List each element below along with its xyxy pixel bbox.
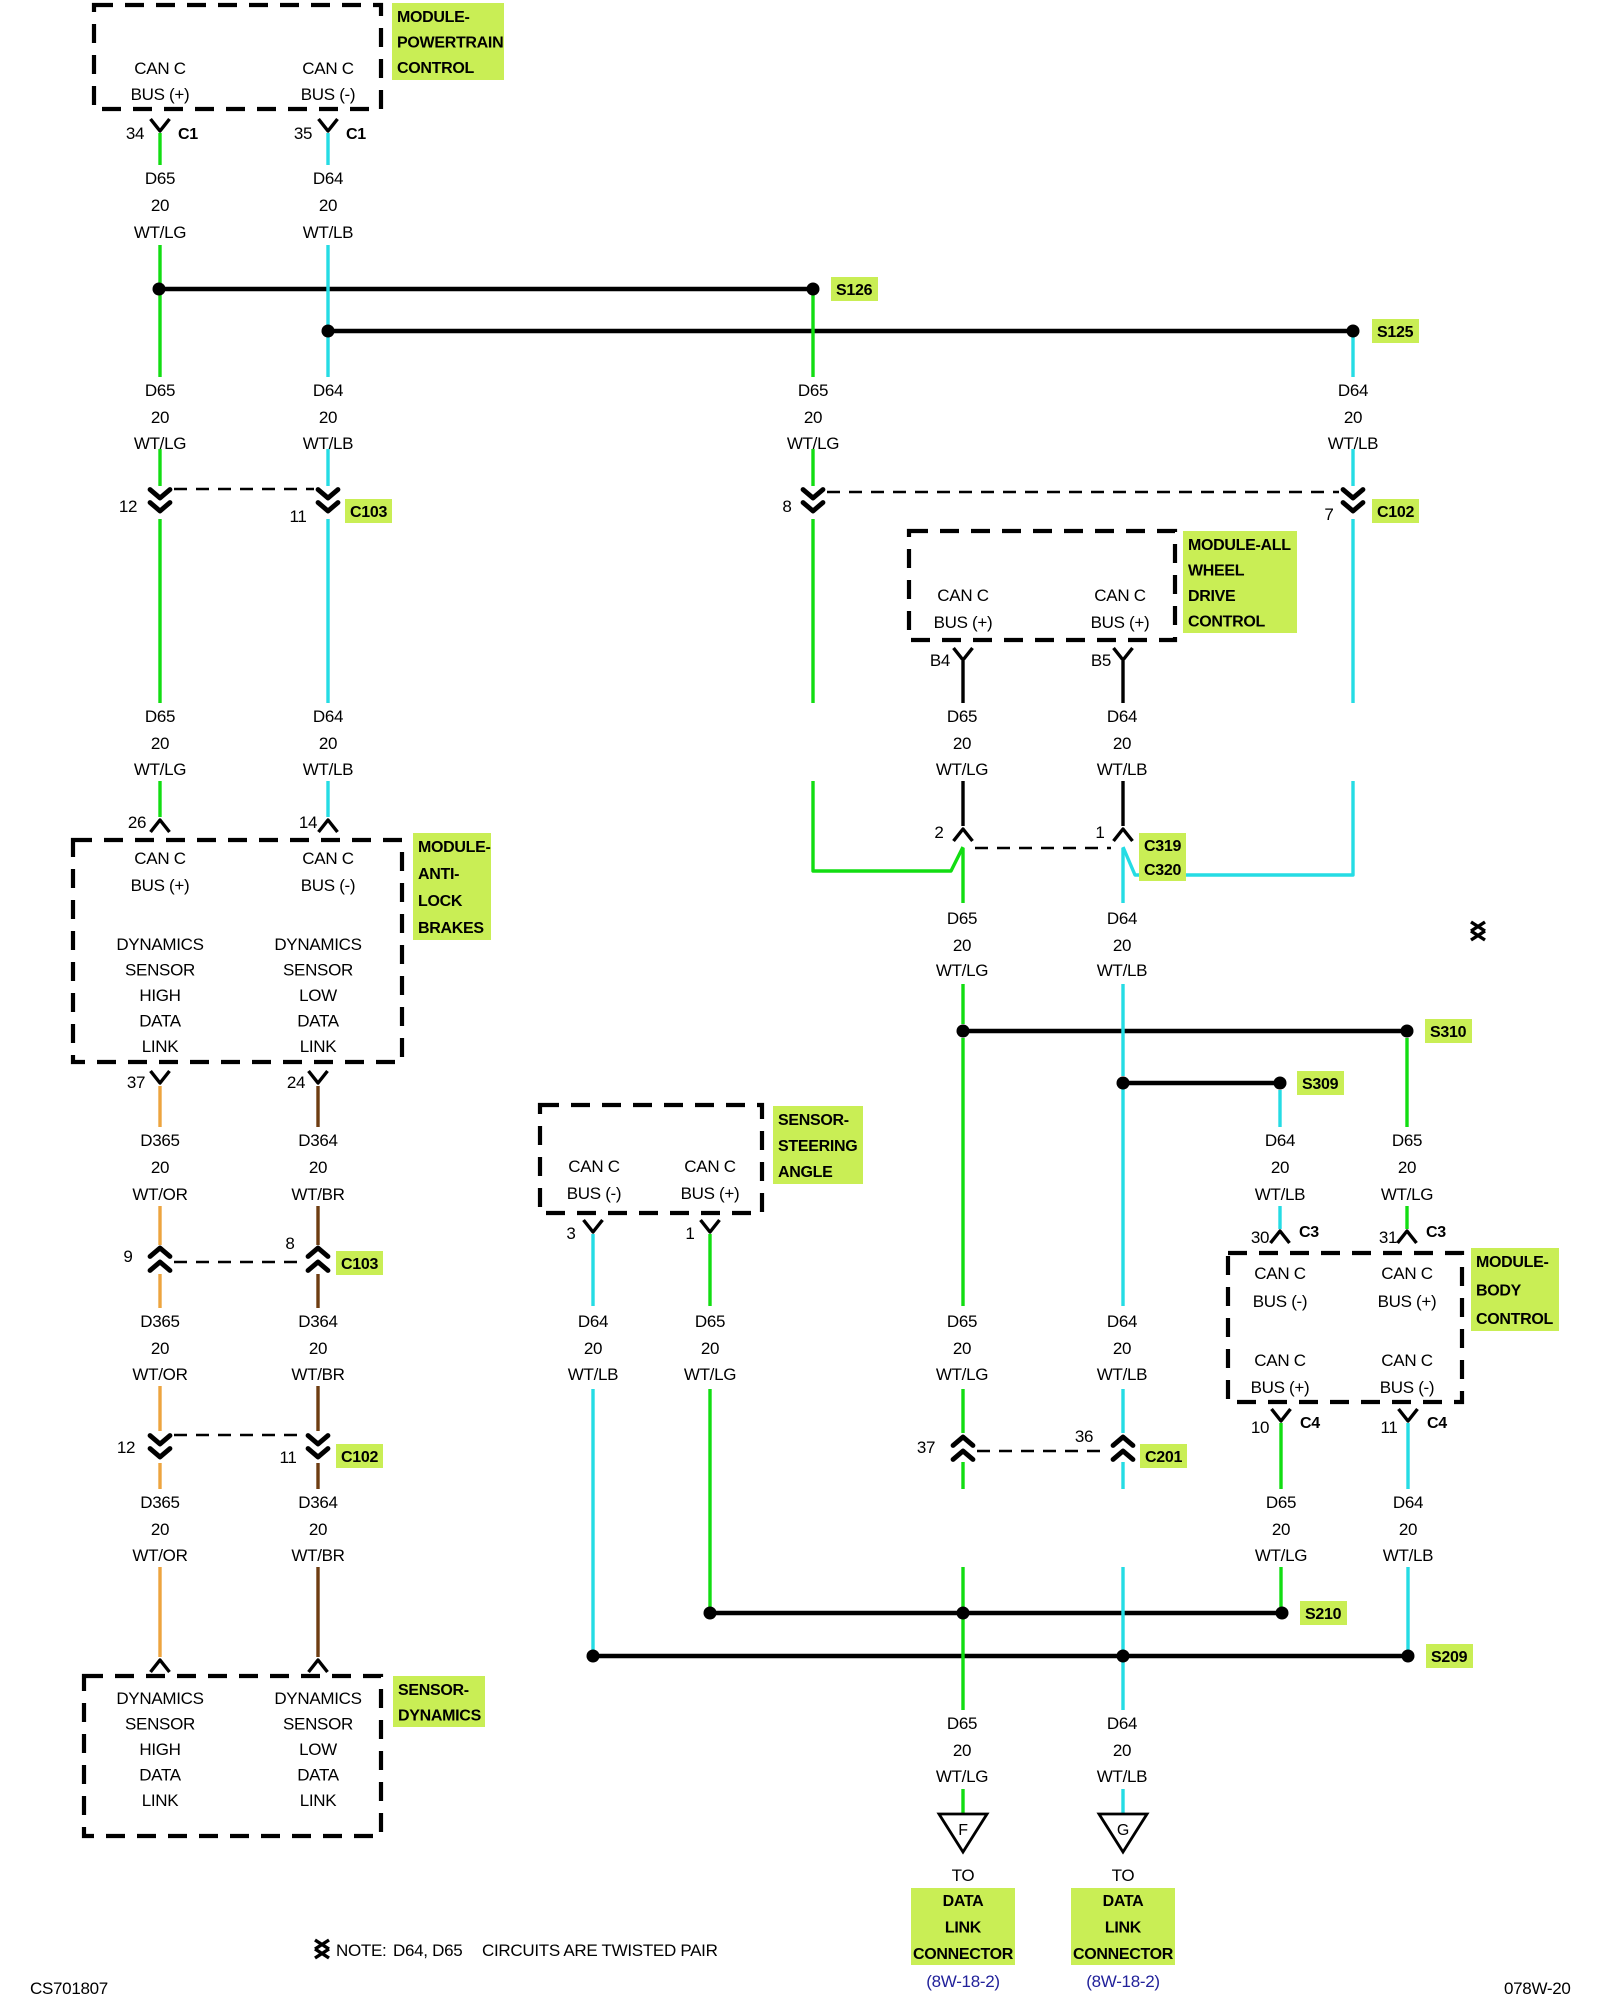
svg-text:C102: C102	[1377, 504, 1414, 521]
svg-text:BUS (+): BUS (+)	[1091, 613, 1150, 632]
svg-text:SENSOR: SENSOR	[283, 1715, 353, 1734]
svg-text:D64: D64	[1107, 707, 1137, 726]
svg-text:DATA: DATA	[943, 1893, 985, 1910]
svg-text:20: 20	[319, 408, 337, 427]
svg-text:20: 20	[953, 936, 971, 955]
svg-text:WT/LG: WT/LG	[134, 434, 186, 453]
svg-text:DATA: DATA	[297, 1012, 340, 1031]
svg-text:31: 31	[1379, 1228, 1397, 1247]
svg-text:D65: D65	[145, 381, 175, 400]
svg-text:LINK: LINK	[945, 1920, 982, 1937]
svg-text:D65: D65	[145, 707, 175, 726]
svg-text:24: 24	[287, 1073, 305, 1092]
svg-text:S126: S126	[836, 282, 873, 299]
svg-text:WT/OR: WT/OR	[132, 1365, 187, 1384]
svg-text:D65: D65	[1392, 1131, 1422, 1150]
svg-text:CONTROL: CONTROL	[1188, 614, 1266, 631]
svg-text:CAN C: CAN C	[302, 849, 353, 868]
svg-text:S309: S309	[1302, 1076, 1339, 1093]
svg-text:BUS (-): BUS (-)	[301, 85, 356, 104]
svg-text:WT/LG: WT/LG	[1255, 1546, 1307, 1565]
svg-text:35: 35	[294, 124, 312, 143]
svg-text:BUS (+): BUS (+)	[934, 613, 993, 632]
svg-text:11: 11	[1380, 1418, 1397, 1437]
svg-text:WT/BR: WT/BR	[291, 1365, 344, 1384]
svg-text:C3: C3	[1426, 1224, 1446, 1241]
svg-text:D64, D65: D64, D65	[393, 1941, 462, 1960]
svg-text:D65: D65	[947, 707, 977, 726]
svg-text:CAN C: CAN C	[1254, 1264, 1305, 1283]
svg-text:8: 8	[782, 497, 791, 516]
svg-text:BUS (+): BUS (+)	[1251, 1378, 1310, 1397]
svg-text:LINK: LINK	[300, 1791, 338, 1810]
svg-text:DATA: DATA	[297, 1766, 340, 1785]
svg-text:WT/LG: WT/LG	[936, 760, 988, 779]
svg-text:20: 20	[1113, 734, 1131, 753]
svg-text:NOTE:: NOTE:	[336, 1941, 386, 1960]
svg-text:S210: S210	[1305, 1606, 1342, 1623]
svg-text:BUS (+): BUS (+)	[131, 85, 190, 104]
svg-text:10: 10	[1251, 1418, 1269, 1437]
svg-text:C103: C103	[341, 1256, 378, 1273]
svg-text:DATA: DATA	[1103, 1893, 1145, 1910]
svg-text:C102: C102	[341, 1449, 378, 1466]
svg-text:C1: C1	[178, 126, 198, 143]
svg-text:D64: D64	[1338, 381, 1368, 400]
svg-text:LINK: LINK	[142, 1791, 180, 1810]
svg-text:S209: S209	[1431, 1649, 1468, 1666]
svg-text:CAN C: CAN C	[134, 59, 185, 78]
svg-text:C1: C1	[346, 126, 366, 143]
svg-text:BUS (-): BUS (-)	[301, 876, 356, 895]
svg-text:WT/OR: WT/OR	[132, 1185, 187, 1204]
svg-text:9: 9	[123, 1247, 132, 1266]
svg-text:LINK: LINK	[142, 1037, 180, 1056]
svg-text:CS701807: CS701807	[30, 1979, 108, 1998]
svg-text:CONTROL: CONTROL	[1476, 1311, 1554, 1328]
svg-text:20: 20	[1272, 1520, 1290, 1539]
svg-text:20: 20	[151, 1339, 169, 1358]
svg-text:WT/LG: WT/LG	[684, 1365, 736, 1384]
svg-text:20: 20	[1399, 1520, 1417, 1539]
svg-text:B4: B4	[930, 651, 950, 670]
svg-text:D64: D64	[313, 707, 343, 726]
svg-text:20: 20	[1398, 1158, 1416, 1177]
svg-text:11: 11	[289, 507, 306, 526]
svg-text:BUS (-): BUS (-)	[567, 1184, 622, 1203]
svg-text:D65: D65	[947, 909, 977, 928]
svg-text:20: 20	[953, 734, 971, 753]
svg-text:BUS (+): BUS (+)	[1378, 1292, 1437, 1311]
svg-text:37: 37	[917, 1438, 935, 1457]
svg-text:20: 20	[151, 408, 169, 427]
svg-text:078W-20: 078W-20	[1504, 1979, 1571, 1998]
svg-text:WT/LB: WT/LB	[1097, 760, 1147, 779]
svg-text:HIGH: HIGH	[139, 986, 180, 1005]
svg-text:CAN C: CAN C	[1254, 1351, 1305, 1370]
svg-text:DYNAMICS: DYNAMICS	[116, 935, 203, 954]
svg-text:MODULE-ALL: MODULE-ALL	[1188, 537, 1291, 554]
svg-text:TO: TO	[1112, 1866, 1135, 1885]
svg-text:WT/LG: WT/LG	[134, 223, 186, 242]
svg-text:20: 20	[1113, 1741, 1131, 1760]
svg-text:ANGLE: ANGLE	[778, 1164, 833, 1181]
svg-text:20: 20	[953, 1339, 971, 1358]
svg-text:C320: C320	[1144, 862, 1181, 879]
svg-text:20: 20	[309, 1339, 327, 1358]
svg-text:SENSOR: SENSOR	[283, 961, 353, 980]
svg-text:CAN C: CAN C	[302, 59, 353, 78]
svg-text:MODULE-: MODULE-	[397, 9, 470, 26]
svg-text:D64: D64	[313, 169, 343, 188]
svg-text:D64: D64	[578, 1312, 608, 1331]
svg-text:CONNECTOR: CONNECTOR	[913, 1946, 1014, 1963]
svg-text:LINK: LINK	[1105, 1920, 1142, 1937]
svg-text:WT/OR: WT/OR	[132, 1546, 187, 1565]
svg-text:C4: C4	[1427, 1415, 1447, 1432]
svg-text:20: 20	[151, 1158, 169, 1177]
svg-text:WT/LG: WT/LG	[1381, 1185, 1433, 1204]
svg-text:LINK: LINK	[300, 1037, 338, 1056]
svg-text:20: 20	[701, 1339, 719, 1358]
svg-text:S125: S125	[1377, 324, 1414, 341]
svg-text:C103: C103	[350, 504, 387, 521]
svg-text:WT/LB: WT/LB	[1097, 961, 1147, 980]
svg-text:BUS (+): BUS (+)	[681, 1184, 740, 1203]
svg-text:20: 20	[151, 196, 169, 215]
svg-text:20: 20	[953, 1741, 971, 1760]
svg-text:7: 7	[1324, 505, 1333, 524]
svg-text:14: 14	[299, 813, 317, 832]
svg-text:D365: D365	[140, 1312, 179, 1331]
svg-text:TO: TO	[952, 1866, 975, 1885]
svg-text:D64: D64	[1107, 1714, 1137, 1733]
svg-text:SENSOR: SENSOR	[125, 961, 195, 980]
svg-text:BRAKES: BRAKES	[418, 920, 484, 937]
svg-text:C319: C319	[1144, 838, 1181, 855]
svg-text:D364: D364	[298, 1131, 337, 1150]
svg-text:C201: C201	[1145, 1449, 1182, 1466]
svg-text:LOW: LOW	[299, 1740, 337, 1759]
svg-text:WT/LG: WT/LG	[936, 1365, 988, 1384]
svg-text:CAN C: CAN C	[568, 1157, 619, 1176]
svg-text:1: 1	[685, 1224, 694, 1243]
svg-text:D64: D64	[1107, 909, 1137, 928]
svg-text:20: 20	[319, 196, 337, 215]
svg-text:D64: D64	[1265, 1131, 1295, 1150]
svg-text:12: 12	[119, 497, 137, 516]
svg-text:D65: D65	[947, 1714, 977, 1733]
svg-text:1: 1	[1095, 823, 1104, 842]
svg-text:36: 36	[1075, 1427, 1093, 1446]
svg-text:D64: D64	[1107, 1312, 1137, 1331]
svg-text:20: 20	[1113, 1339, 1131, 1358]
svg-text:34: 34	[126, 124, 144, 143]
svg-text:20: 20	[1344, 408, 1362, 427]
svg-text:HIGH: HIGH	[139, 1740, 180, 1759]
svg-text:D65: D65	[695, 1312, 725, 1331]
svg-text:BUS (-): BUS (-)	[1380, 1378, 1435, 1397]
svg-text:20: 20	[309, 1158, 327, 1177]
svg-text:D365: D365	[140, 1131, 179, 1150]
svg-text:B5: B5	[1091, 651, 1111, 670]
svg-text:SENSOR-: SENSOR-	[778, 1112, 849, 1129]
svg-text:G: G	[1117, 1822, 1129, 1839]
svg-text:8: 8	[285, 1234, 294, 1253]
svg-text:CAN C: CAN C	[134, 849, 185, 868]
svg-text:D65: D65	[1266, 1493, 1296, 1512]
svg-text:WT/LG: WT/LG	[936, 961, 988, 980]
svg-text:LOCK: LOCK	[418, 893, 463, 910]
svg-text:3: 3	[566, 1224, 575, 1243]
svg-text:20: 20	[319, 734, 337, 753]
svg-text:D65: D65	[145, 169, 175, 188]
svg-text:DATA: DATA	[139, 1766, 182, 1785]
svg-text:20: 20	[1113, 936, 1131, 955]
svg-text:C3: C3	[1299, 1224, 1319, 1241]
svg-text:WT/LG: WT/LG	[936, 1767, 988, 1786]
svg-text:26: 26	[128, 813, 146, 832]
svg-text:DYNAMICS: DYNAMICS	[274, 935, 361, 954]
svg-text:D365: D365	[140, 1493, 179, 1512]
svg-text:WT/LB: WT/LB	[303, 434, 353, 453]
svg-text:WT/BR: WT/BR	[291, 1546, 344, 1565]
svg-text:DYNAMICS: DYNAMICS	[116, 1689, 203, 1708]
svg-text:2: 2	[934, 823, 943, 842]
svg-text:SENSOR: SENSOR	[125, 1715, 195, 1734]
svg-text:WT/LG: WT/LG	[787, 434, 839, 453]
svg-text:WT/LB: WT/LB	[303, 760, 353, 779]
svg-text:CAN C: CAN C	[1381, 1351, 1432, 1370]
svg-text:STEERING: STEERING	[778, 1138, 857, 1155]
svg-text:SENSOR-: SENSOR-	[398, 1682, 469, 1699]
svg-text:D64: D64	[313, 381, 343, 400]
svg-text:20: 20	[1271, 1158, 1289, 1177]
svg-text:S310: S310	[1430, 1024, 1467, 1041]
svg-text:(8W-18-2): (8W-18-2)	[926, 1972, 1000, 1991]
svg-text:WT/LB: WT/LB	[1328, 434, 1378, 453]
svg-text:30: 30	[1251, 1228, 1269, 1247]
svg-text:CAN C: CAN C	[684, 1157, 735, 1176]
svg-text:POWERTRAIN: POWERTRAIN	[397, 35, 503, 52]
svg-text:C4: C4	[1300, 1415, 1320, 1432]
svg-text:DYNAMICS: DYNAMICS	[398, 1708, 482, 1725]
svg-text:20: 20	[584, 1339, 602, 1358]
svg-text:CIRCUITS ARE TWISTED PAIR: CIRCUITS ARE TWISTED PAIR	[482, 1941, 718, 1960]
svg-text:BUS (+): BUS (+)	[131, 876, 190, 895]
svg-text:WHEEL: WHEEL	[1188, 563, 1245, 580]
svg-text:DYNAMICS: DYNAMICS	[274, 1689, 361, 1708]
svg-text:DRIVE: DRIVE	[1188, 588, 1236, 605]
svg-text:(8W-18-2): (8W-18-2)	[1086, 1972, 1160, 1991]
svg-text:CAN C: CAN C	[937, 586, 988, 605]
svg-text:ANTI-: ANTI-	[418, 866, 459, 883]
svg-text:CONNECTOR: CONNECTOR	[1073, 1946, 1174, 1963]
svg-text:11: 11	[279, 1448, 296, 1467]
svg-text:WT/LB: WT/LB	[1255, 1185, 1305, 1204]
svg-text:D364: D364	[298, 1493, 337, 1512]
svg-text:WT/LB: WT/LB	[568, 1365, 618, 1384]
svg-text:DATA: DATA	[139, 1012, 182, 1031]
svg-text:CAN C: CAN C	[1381, 1264, 1432, 1283]
svg-text:BUS (-): BUS (-)	[1253, 1292, 1308, 1311]
svg-text:WT/LB: WT/LB	[1097, 1767, 1147, 1786]
svg-text:BODY: BODY	[1476, 1283, 1522, 1300]
svg-text:WT/LB: WT/LB	[1383, 1546, 1433, 1565]
svg-text:MODULE-: MODULE-	[1476, 1254, 1549, 1271]
svg-text:20: 20	[804, 408, 822, 427]
svg-text:LOW: LOW	[299, 986, 337, 1005]
svg-text:37: 37	[127, 1073, 145, 1092]
svg-text:WT/LB: WT/LB	[1097, 1365, 1147, 1384]
svg-text:20: 20	[151, 734, 169, 753]
svg-text:20: 20	[151, 1520, 169, 1539]
svg-text:D65: D65	[947, 1312, 977, 1331]
svg-text:F: F	[958, 1822, 968, 1839]
svg-text:WT/LG: WT/LG	[134, 760, 186, 779]
svg-text:WT/BR: WT/BR	[291, 1185, 344, 1204]
svg-text:WT/LB: WT/LB	[303, 223, 353, 242]
svg-text:D65: D65	[798, 381, 828, 400]
svg-text:D364: D364	[298, 1312, 337, 1331]
svg-text:D64: D64	[1393, 1493, 1423, 1512]
svg-text:12: 12	[117, 1438, 135, 1457]
svg-text:CAN C: CAN C	[1094, 586, 1145, 605]
svg-text:MODULE-: MODULE-	[418, 839, 491, 856]
svg-text:20: 20	[309, 1520, 327, 1539]
svg-text:CONTROL: CONTROL	[397, 60, 475, 77]
